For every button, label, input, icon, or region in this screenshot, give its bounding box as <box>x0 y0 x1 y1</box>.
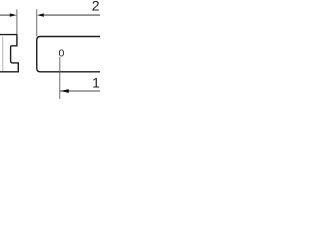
svg-text:1: 1 <box>92 75 100 91</box>
svg-text:2: 2 <box>92 0 100 13</box>
